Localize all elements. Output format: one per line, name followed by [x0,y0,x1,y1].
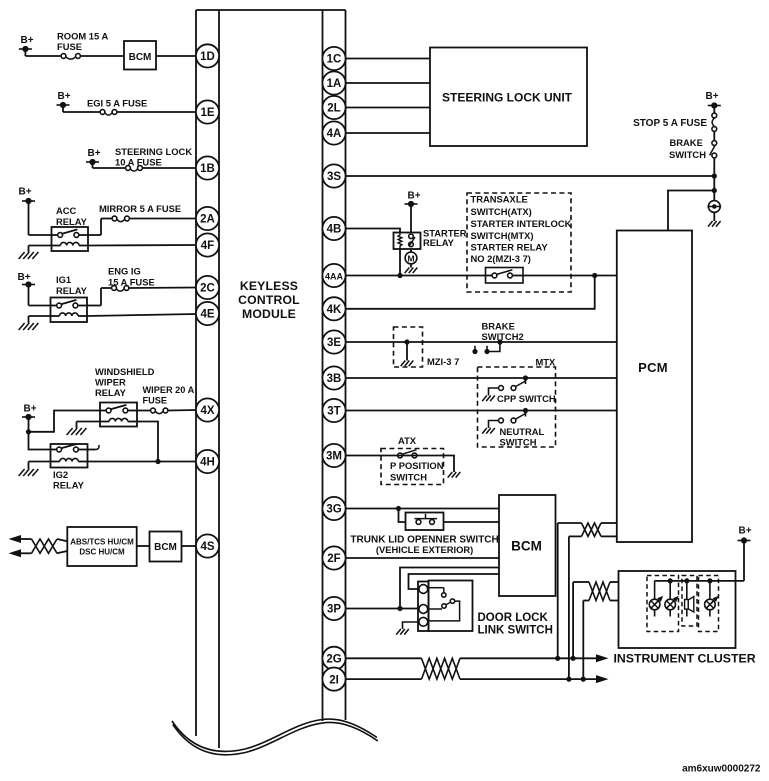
B+ supply for IG1 relay [17,272,35,288]
svg-text:2L: 2L [327,103,340,115]
twisted pair to ABS unit [32,539,58,553]
label BRAKE SWITCH2 [482,321,524,343]
wire pin 2I to twisted pair [346,678,422,680]
svg-text:B+: B+ [57,91,70,102]
node 2I-PCM junction [566,677,571,682]
cluster indicator dashed box 3 [699,576,719,632]
neutral switch [482,411,525,434]
svg-text:MODULE: MODULE [242,307,296,321]
svg-text:STOP 5 A FUSE: STOP 5 A FUSE [633,118,707,129]
wire pin 4B to starter relay coil [346,229,401,233]
svg-text:STEERING LOCK: STEERING LOCK [115,146,192,157]
pin 4AA [322,264,345,287]
svg-text:RELAY: RELAY [423,237,455,248]
pin 4X [196,398,219,421]
wire pin 1C to steering lock unit [346,58,431,60]
label NEUTRAL SWITCH [500,426,545,448]
wire pin 2L to steering lock unit [346,107,431,109]
fuse MIRROR 5 A [112,216,129,222]
wire junction down to IG2 relay switch [29,432,51,450]
label IG1 RELAY [56,274,88,296]
svg-text:B+: B+ [23,404,36,415]
B+ supply for wiper/IG2 relays [22,404,37,421]
twisted pair PCM to harness [558,523,617,536]
fuse STEERING LOCK 10 A [126,166,143,172]
wire pin 4K to 4AA line [346,276,595,309]
svg-text:STARTER INTERLOCK: STARTER INTERLOCK [471,218,572,229]
label P POSITION SWITCH [390,460,444,483]
ground inside MZI box [401,342,414,366]
fuse WIPER 20 A [151,408,168,414]
label STARTER RELAY [423,228,467,249]
wire pin 3G to BCM [346,508,500,510]
node CPP junction [523,375,528,380]
transaxle switch contact [486,268,524,284]
node cluster bus tap 2 [684,578,689,583]
svg-text:NO 2(MZI-3 7): NO 2(MZI-3 7) [471,253,531,264]
svg-text:FUSE: FUSE [57,41,82,52]
starter motor M [405,249,417,264]
wire B+ down to junction [28,417,30,432]
wire wiper relay to WIPER fuse [137,410,151,412]
ATX dashed box [381,449,444,485]
pin 4A [322,121,345,144]
wire starter relay coil to 4AA line [399,249,401,276]
wires twist to ABS box [57,539,67,553]
module top edge [196,9,346,11]
svg-text:B+: B+ [738,526,751,537]
wire twist to 2G arrow [460,657,597,659]
wire IG1 relay coil to pin 4E [87,314,196,316]
node wiper B+ junction [26,429,31,434]
svg-text:RELAY: RELAY [95,387,127,398]
svg-text:STARTER RELAY: STARTER RELAY [471,242,549,253]
fuse ENG IG 15 A [112,286,129,292]
svg-text:CONTROL: CONTROL [238,293,300,307]
node 3E ground junction [404,339,409,344]
arrow to vehicle harness lower [9,549,32,557]
pin 2A [196,207,219,230]
ground for IG1 relay coil [19,316,51,330]
arrow 2G to instrument cluster [596,654,609,662]
wire junction up to BCM [400,568,499,609]
wire pin 1A to steering lock unit [346,82,431,84]
svg-text:WIPER 20 A: WIPER 20 A [143,385,195,395]
relay IG2 RELAY [51,444,88,468]
fuse STOP 5 A [712,106,717,132]
svg-text:(VEHICLE EXTERIOR): (VEHICLE EXTERIOR) [376,544,473,555]
svg-text:WINDSHIELD: WINDSHIELD [95,366,155,377]
svg-text:3E: 3E [327,337,341,349]
wire fuse to pin 2C [129,287,196,290]
relay WINDSHIELD WIPER RELAY [100,403,137,427]
svg-text:2G: 2G [326,654,341,666]
label TRUNK LID OPENNER SWITCH (VEHICLE EXTERIOR) [350,535,498,556]
label WINDSHIELD WIPER RELAY [95,366,155,398]
svg-text:IG2: IG2 [53,469,68,480]
svg-text:BRAKE: BRAKE [482,321,515,332]
pin 4K [322,297,345,320]
svg-text:2F: 2F [327,553,340,565]
wire PCM pair down to 2I line [568,536,570,679]
pin 4H [196,450,219,473]
svg-text:4X: 4X [200,405,214,417]
wire wiper relay coil to 4H line [137,422,158,462]
svg-text:EGI 5 A FUSE: EGI 5 A FUSE [87,98,147,109]
CPP switch [482,378,525,401]
pin 2L [322,96,345,119]
wire junction to windshield wiper relay switch [29,411,101,432]
svg-text:BCM: BCM [154,542,177,553]
svg-text:2I: 2I [329,674,339,686]
arrow 2I to instrument cluster [596,675,609,683]
node 3P junction [397,606,402,611]
svg-text:DOOR LOCK: DOOR LOCK [478,612,549,624]
B+ supply for instrument cluster [738,526,752,544]
wire B+ to steering lock fuse [93,162,126,168]
indicator lamp 3 [705,581,719,617]
svg-text:LINK SWITCH: LINK SWITCH [478,625,553,637]
svg-text:SWITCH: SWITCH [669,149,706,160]
label KEYLESS CONTROL MODULE [238,279,300,321]
ground for wiper relay coil [67,422,100,436]
svg-text:3S: 3S [327,171,341,183]
wire pin 3B to PCM [346,377,617,379]
svg-text:WIPER: WIPER [95,377,126,388]
svg-text:4H: 4H [200,457,215,469]
wire ACC relay to MIRROR fuse [88,219,112,236]
svg-text:B+: B+ [87,148,100,159]
label ACC RELAY [56,205,88,227]
svg-text:ROOM 15 A: ROOM 15 A [57,31,108,42]
svg-text:3G: 3G [326,504,341,516]
fuse EGI 5 A [100,110,117,116]
wire pin 3T to PCM [346,410,617,412]
B+ supply for steering lock fuse [86,148,101,165]
svg-text:RELAY: RELAY [53,480,85,491]
svg-text:ABS/TCS HU/CM: ABS/TCS HU/CM [70,538,134,547]
wire BCM to pin 4S [182,545,197,547]
svg-text:DSC HU/CM: DSC HU/CM [79,548,125,557]
svg-text:4F: 4F [201,240,214,252]
wire ACC relay coil to pin 4F [88,244,196,247]
wire IG1 relay to ENG IG fuse [87,288,112,306]
node neutral junction [523,408,528,413]
svg-text:3B: 3B [327,373,342,385]
door lock link switch body [429,581,473,632]
wire fuse to BCM [81,55,125,57]
svg-text:SWITCH: SWITCH [390,472,427,483]
pin 4F [196,233,219,256]
svg-text:TRANSAXLE: TRANSAXLE [471,194,528,205]
wire B+ to ROOM fuse [25,49,61,56]
IG2 switch output stub with hook [88,445,100,450]
svg-text:RELAY: RELAY [56,216,88,227]
pin 4S [196,534,219,557]
PCM module [617,231,692,543]
ground for starter motor [405,264,418,273]
wire pin 4AA to PCM [346,275,617,277]
pin 3B [322,366,345,389]
svg-text:ATX: ATX [398,435,417,446]
wire pin 3E to PCM [346,341,617,343]
svg-text:1D: 1D [200,51,215,63]
door lock connector column [418,582,429,632]
relay IG1 RELAY [51,298,88,323]
pin 1C [322,47,345,70]
pin 2C [196,276,219,299]
wire twist to 2I arrow [460,678,597,680]
B+ supply for stop fuse [705,91,720,109]
pin 4B [322,217,345,240]
svg-text:2C: 2C [200,283,215,295]
svg-text:RELAY: RELAY [56,285,88,296]
indicator lamp 2 [665,581,679,617]
keyless control module left rail [196,10,219,748]
svg-text:10 A FUSE: 10 A FUSE [115,157,162,168]
svg-text:am6xuw0000272: am6xuw0000272 [682,764,761,775]
svg-text:4B: 4B [327,224,342,236]
svg-text:IG1: IG1 [56,274,71,285]
svg-text:4S: 4S [200,541,214,553]
MTX dashed box [478,367,556,447]
svg-text:INSTRUMENT CLUSTER: INSTRUMENT CLUSTER [614,652,756,666]
ground for door lock switch [396,622,418,635]
node 4H junction [155,459,160,464]
pin 2F [322,546,345,569]
wire B+ to ACC relay switch [29,201,52,235]
wire B+ to EGI fuse [63,105,100,112]
svg-text:P POSITION: P POSITION [390,460,444,471]
wire pin 2F to BCM [346,557,500,559]
wire BCM to pin 1D [156,55,196,57]
svg-text:B+: B+ [407,191,420,202]
pin 3T [322,399,345,422]
arrow to vehicle harness upper [9,535,32,543]
P position switch contact [398,450,417,458]
svg-text:BCM: BCM [511,539,542,554]
svg-text:SWITCH: SWITCH [500,437,537,448]
B+ supply for ROOM fuse [19,35,34,52]
pin 3S [322,164,345,187]
label WIPER 20 A FUSE [143,385,195,406]
trunk lid opener switch [399,509,500,531]
wire B+ to starter relay switch [410,204,412,233]
cluster indicator dashed box 1 [647,576,679,632]
module break wave [172,719,378,755]
wire pin 3M into ATX box [346,455,449,457]
svg-text:3T: 3T [327,406,340,418]
svg-text:B+: B+ [18,187,31,198]
node 3S junction [712,173,717,178]
pin 1D [196,44,219,67]
svg-text:2A: 2A [200,214,215,226]
wire pin 4A to steering lock unit [346,132,431,134]
svg-text:4A: 4A [327,128,342,140]
pin 3M [322,444,345,467]
svg-text:BRAKE: BRAKE [670,137,703,148]
label ROOM 15 A FUSE [57,31,108,53]
label IG2 RELAY [53,469,85,491]
BCM module (ABS circuit) [150,532,182,562]
node starter coil junction [397,273,402,278]
wire B+ to IG1 relay switch [29,285,51,306]
pin 3E [322,330,345,353]
label DOOR LOCK LINK SWITCH [478,612,553,637]
svg-text:MIRROR 5 A FUSE: MIRROR 5 A FUSE [99,203,181,214]
ground for IG2 relay coil [19,462,51,477]
twisted pair 2G/2I [422,658,461,679]
wire cluster pair down to 2G line [572,582,574,658]
svg-text:SWITCH2: SWITCH2 [482,331,524,342]
ground for ACC relay coil [19,246,52,260]
relay STARTER RELAY [394,233,421,250]
svg-text:BCM: BCM [129,52,152,63]
svg-text:4E: 4E [200,309,214,321]
pin 4E [196,302,219,325]
transaxle switch dashed box [467,193,571,292]
svg-text:1E: 1E [200,107,214,119]
brake switch [710,131,717,158]
wire fuse to pin 2A [130,218,197,220]
BCM module (body control) [499,495,556,596]
wire PCM pair down to 2G line [557,523,559,658]
wire brake switch down to ground point [713,158,715,201]
pin 1E [196,100,219,123]
BCM module (room circuit) [124,41,156,70]
node 2G-PCM junction [555,656,560,661]
wire IG2 relay coil to pin 4H [88,461,197,463]
STEERING LOCK UNIT box [430,48,587,147]
keyless control module right rail [323,10,346,721]
buzzer [685,581,694,617]
wire ABS to BCM [137,545,150,547]
pin 3G [322,497,345,520]
svg-text:M: M [407,254,414,264]
twisted pair cluster to harness [573,582,618,601]
fuse ROOM 15 A [61,54,80,60]
svg-text:ENG IG: ENG IG [108,266,141,277]
pin 2G [322,647,345,670]
label STEERING LOCK 10 A FUSE [115,146,192,168]
wire cluster pair down to 2I line [582,601,584,680]
wire B+ into cluster bus [655,541,744,581]
svg-text:NEUTRAL: NEUTRAL [500,426,545,437]
node 2I-cluster junction [581,677,586,682]
wire pin 3S to brake circuit [346,175,715,177]
svg-text:ACC: ACC [56,205,77,216]
ground point connector G [707,201,721,227]
MZI-3 7 ground dashed box [394,327,423,367]
INSTRUMENT CLUSTER box [619,571,736,648]
wire junction to PCM top [668,191,714,231]
svg-text:15 A FUSE: 15 A FUSE [108,277,155,288]
node cluster bus tap 3 [707,578,712,583]
svg-text:B+: B+ [20,35,33,46]
node 4AA-4K junction [592,273,597,278]
svg-text:PCM: PCM [638,360,668,375]
svg-text:SWITCH(MTX): SWITCH(MTX) [471,230,534,241]
svg-text:SWITCH(ATX): SWITCH(ATX) [471,206,532,217]
svg-text:MTX: MTX [536,357,557,368]
svg-text:CPP SWITCH: CPP SWITCH [497,393,556,404]
wire fuse to pin 1E [117,111,196,113]
node trunk switch junction [396,506,401,511]
ground for P position switch [448,456,461,478]
svg-text:1A: 1A [327,78,342,90]
ABS/TCS HU/CM DSC HU/CM unit [67,527,136,566]
svg-text:STEERING LOCK UNIT: STEERING LOCK UNIT [442,91,573,105]
brake switch2 contact [472,342,500,354]
svg-text:B+: B+ [705,91,718,102]
B+ supply for starter relay [405,191,421,208]
node PCM feed junction [712,188,717,193]
svg-text:MZI-3 7: MZI-3 7 [427,356,459,367]
label ENG IG 15 A FUSE [108,266,155,288]
node 2G-cluster junction [571,656,576,661]
wire fuse to pin 4X [168,409,196,412]
wire BCM to door lock connector pin 1 [409,574,500,589]
relay ACC RELAY [52,227,89,251]
svg-text:4K: 4K [327,304,342,316]
pin 3P [322,597,345,620]
pin 1B [196,156,219,179]
label BRAKE SWITCH [669,137,706,160]
wire fuse to pin 1B [143,167,197,169]
svg-text:KEYLESS: KEYLESS [240,279,298,293]
node cluster bus tap 1 [668,578,673,583]
pin 2I [322,668,345,691]
svg-text:1C: 1C [327,54,342,66]
svg-text:3M: 3M [326,451,342,463]
node brake switch2 junction [497,339,502,344]
B+ supply for ACC relay [18,187,35,205]
wire pin 3P to door lock switch [346,608,419,610]
B+ supply for EGI fuse [57,91,71,108]
label TRANSAXLE SWITCH(ATX) STARTER INTERLOCK SWITCH(MTX) STARTER RELAY NO 2 [471,194,572,265]
cluster indicator dashed box 2 [682,576,697,627]
pin 1A [322,71,345,94]
wire pin 2G to twisted pair [346,657,422,659]
indicator lamp 1 [649,581,663,617]
svg-text:4AA: 4AA [325,272,344,282]
svg-text:B+: B+ [17,272,30,283]
svg-text:1B: 1B [200,163,215,175]
svg-text:FUSE: FUSE [143,396,168,406]
svg-text:3P: 3P [327,604,341,616]
